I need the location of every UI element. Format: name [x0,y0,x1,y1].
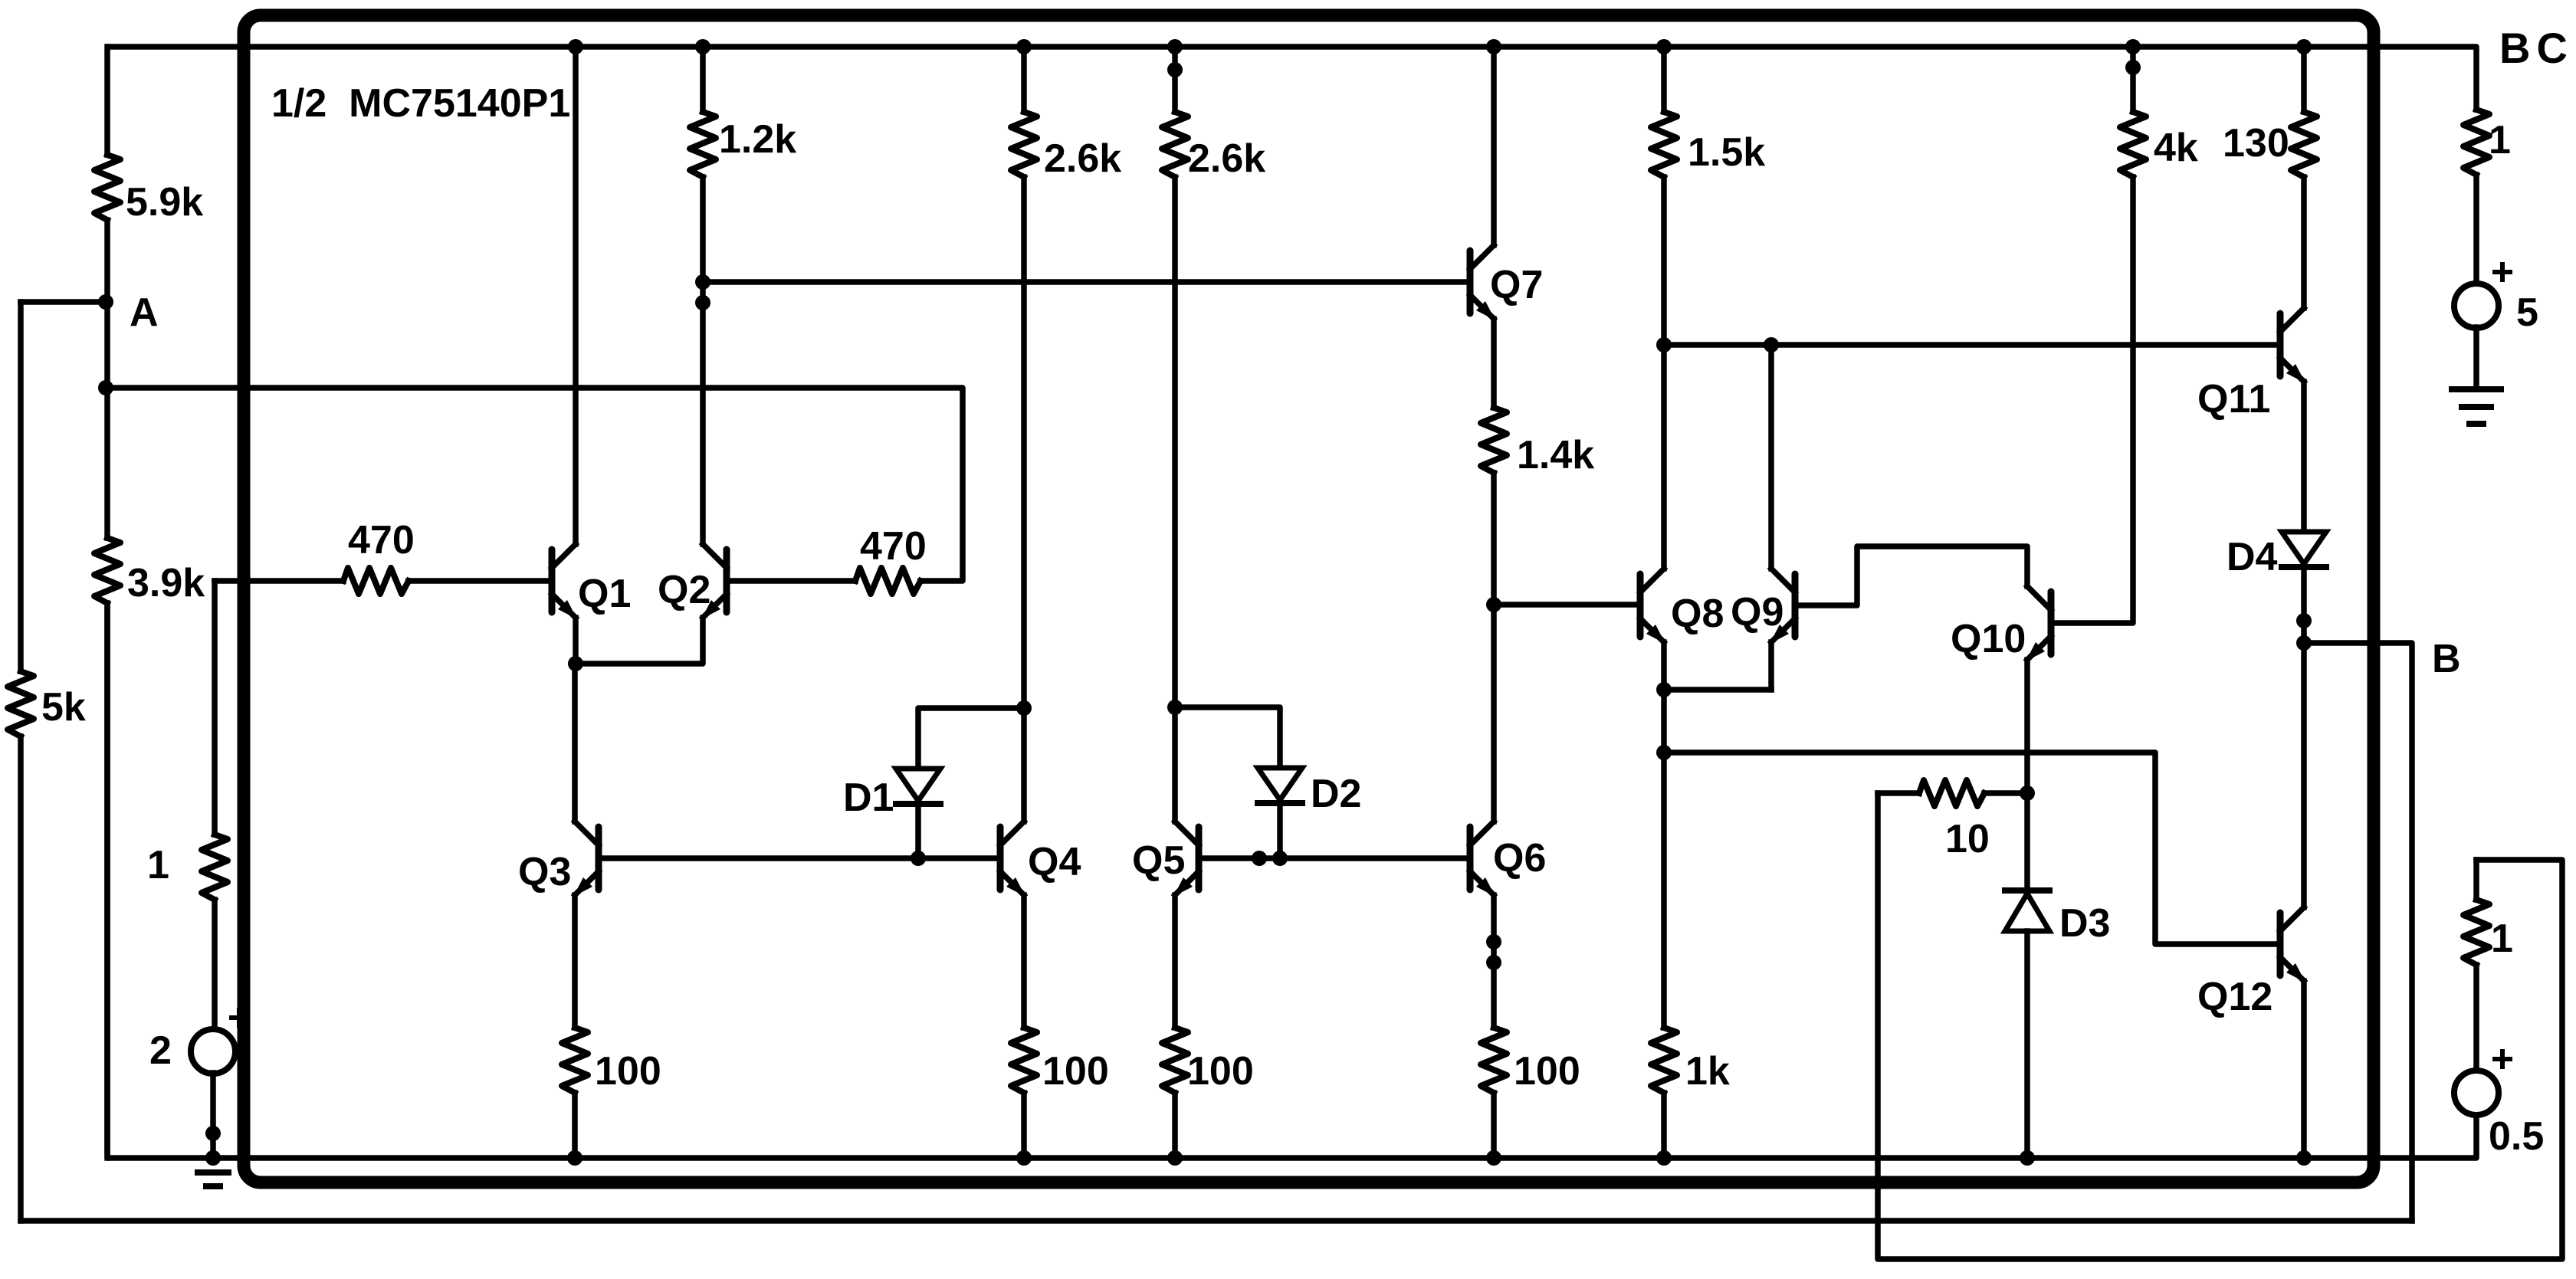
label Q6 [1493,836,1546,881]
wire Q9 emitter [1768,642,1774,690]
source 5 [2454,264,2510,328]
wire Q3 emitter [572,895,578,1028]
resistor 1 bottom right [2463,860,2489,1071]
label Q12 [2197,975,2272,1019]
junction Q8 emitter [1656,682,1672,697]
wire Q11 emitter [2301,382,2307,532]
svg-text:Q11: Q11 [2197,377,2270,421]
node A [98,290,159,335]
junction 1k ground [1656,1150,1672,1166]
wire Q5 emitter [1172,895,1178,1028]
wire D4 bottom [2301,567,2307,643]
junction D2 base line [1252,851,1288,866]
svg-text:Q8: Q8 [1671,592,1724,636]
resistor 1 input [202,581,228,1030]
svg-text:100: 100 [595,1049,661,1094]
svg-text:Q10: Q10 [1951,617,2026,661]
svg-text:Q3: Q3 [518,850,571,894]
wire Q3-Q4 base line [601,855,997,861]
junction Q12 ground [2296,1150,2312,1166]
svg-text:D2: D2 [1311,772,1361,816]
svg-text:Q5: Q5 [1132,838,1185,883]
resistor 1.2k [690,47,716,544]
label Q5 [1132,838,1185,883]
svg-text:Q6: Q6 [1493,836,1546,881]
svg-text:5: 5 [2516,290,2538,335]
junction Q3 ground [567,1150,582,1166]
wire D1 bottom [915,804,921,858]
resistor 100 Q4 [1011,1028,1037,1158]
svg-text:2: 2 [149,1028,172,1073]
label 0.5 [2489,1114,2544,1159]
label 100 Q6 [1514,1049,1580,1094]
wire Q12 base feed [1664,753,2277,944]
svg-text:10: 10 [1945,817,1990,861]
label Q4 [1028,840,1081,884]
resistor 100 Q3 [562,1028,588,1158]
transistor Q1 [552,544,577,619]
junction Q7 rail [1486,39,1501,54]
transistor Q6 [1470,822,1495,897]
wire bottom ground rail [107,605,2476,1158]
wire Q10 emitter [2024,660,2030,793]
svg-text:0.5: 0.5 [2489,1114,2544,1159]
resistor 5k [8,671,34,1221]
wire Q5-Q6 base line [1200,855,1465,861]
wire Q3 collector [572,664,578,822]
wire 4k top lead [2130,47,2136,112]
wire left outer column [18,302,24,671]
wire A to left column [21,299,106,305]
label 130 [2223,121,2289,166]
label 1k [1685,1049,1730,1094]
wire Q6 collector [1491,605,1497,822]
junction D2 top [1167,700,1183,715]
wire Q8 collector [1661,345,1667,569]
label 1 input resistor [147,843,169,887]
wire top supply rail [108,47,2476,110]
svg-text:1: 1 [147,843,169,887]
resistor 3.9k [94,538,120,1158]
label D2 [1311,772,1361,816]
svg-text:3.9k: 3.9k [127,561,205,605]
svg-text:130: 130 [2223,121,2289,166]
resistor 100 Q6 [1481,1028,1507,1158]
junction Q6 ground [1486,1150,1501,1166]
junction Q1 collector rail [568,39,583,54]
transistor Q3 [573,822,599,897]
svg-text:Q12: Q12 [2197,975,2272,1019]
wire Q8 emitter [1661,642,1667,690]
wire Q7 base line [703,279,1465,285]
wire Q10 base [2054,177,2133,623]
svg-text:4k: 4k [2154,126,2198,170]
svg-text:1: 1 [2491,917,2513,961]
label 1 bottom right [2491,917,2513,961]
transistor Q2 [701,544,727,619]
svg-text:100: 100 [1042,1049,1109,1094]
label D3 [2059,901,2110,946]
junction node B inner [2296,613,2312,651]
wire source 5 to ground [2473,327,2479,389]
junction 2.6k2 rail [1167,39,1183,77]
label 470 left [348,518,415,562]
wire Q9 base staircase [1798,546,2027,605]
resistor 1k [1651,753,1677,1158]
label 100 Q3 [595,1049,661,1094]
label 2.6k second [1188,136,1265,181]
label 2.6k first [1044,136,1121,181]
wire Q6 emitter [1491,895,1497,1028]
label Q7 [1490,263,1543,307]
wire input line to Q2 side [106,388,963,581]
label 100 Q4 [1042,1049,1109,1094]
transistor Q7 [1470,245,1495,320]
label Q10 [1951,617,2026,661]
junction 130 rail [2296,39,2312,54]
source 2 [191,1010,247,1074]
transistor Q9 [1770,569,1795,644]
label D1 [843,776,894,820]
svg-text:2.6k: 2.6k [1188,136,1265,181]
label 100 Q5 [1187,1049,1254,1094]
wire Q5 collector [1172,707,1178,822]
resistor 1.5k [1651,47,1677,345]
wire Q11 base line [1664,342,2277,348]
label 1.4k [1517,433,1594,477]
junction bottom rail dots [205,1150,221,1166]
svg-text:BC: BC [2499,24,2574,72]
wire Q2 emitter link [576,618,703,664]
svg-text:Q2: Q2 [658,568,710,612]
junction source 2 lower [205,1126,221,1166]
junction 1.5k bottom [1656,337,1672,353]
svg-text:Q1: Q1 [578,572,631,616]
wire Q8 node down [1661,690,1667,753]
junction D1 top [1016,700,1032,716]
label BC [2499,24,2574,72]
junction 1.2k rail [695,39,710,54]
label Q9 [1731,590,1784,635]
svg-text:Q7: Q7 [1490,263,1543,307]
wire Q8-Q9 emitter link [1664,687,1771,693]
label Q2 [658,568,710,612]
diode D3 [2005,793,2049,1158]
junction Q4 ground [1016,1150,1032,1166]
IC boundary box 1/2 MC75140P1 [244,15,2374,1182]
wire Q1 collector [573,47,579,544]
label Q1 [578,572,631,616]
svg-text:5.9k: 5.9k [126,180,203,225]
source 0.5 [2454,1051,2510,1115]
wire source 2 to ground [210,1073,216,1158]
svg-text:D4: D4 [2227,535,2278,579]
junction D1 base line [911,851,926,866]
transistor Q10 [2026,586,2051,661]
transistor Q11 [2280,308,2305,383]
junction Q9 collector [1764,337,1779,353]
resistor 470 right [730,568,920,594]
svg-text:D3: D3 [2059,901,2110,946]
svg-text:1.2k: 1.2k [719,117,796,162]
wire Q9 collector [1768,345,1774,569]
svg-text:100: 100 [1187,1049,1254,1094]
wire Q7 collector [1491,47,1497,245]
label D4 [2227,535,2278,579]
svg-text:B: B [2432,637,2461,681]
IC label [271,81,570,126]
svg-text:100: 100 [1514,1049,1580,1094]
junction 1.4k bottom [1486,597,1501,612]
label Q11 [2197,377,2270,421]
junction on A column [98,380,113,395]
junction 1.2k bottom [695,274,710,310]
label 2 [149,1028,172,1073]
transistor Q8 [1640,569,1665,644]
label B [2432,637,2461,681]
svg-text:470: 470 [860,524,927,569]
junction Q1Q2 emitters [568,656,583,671]
label Q3 [518,850,571,894]
label 1.2k [719,117,796,162]
svg-text:1k: 1k [1685,1049,1730,1094]
wire node B out [2304,643,2412,1221]
junction Q12 base feed [1656,745,1672,760]
resistor 1.4k [1481,408,1507,605]
wire Q7 emitter [1491,319,1497,408]
wire A-column mid [104,302,110,538]
resistor 130 [2291,47,2317,308]
svg-text:470: 470 [348,518,415,562]
junction 1.5k rail [1656,39,1672,54]
junction 4k rail [2125,39,2141,75]
resistor 2.6k first [1011,47,1037,708]
transistor Q12 [2280,907,2305,982]
label Q8 [1671,592,1724,636]
label 3.9k [127,561,205,605]
wire Q1 emitter to node [573,618,579,664]
label 5k [41,685,86,730]
resistor 1 top right [2463,110,2489,284]
svg-text:D1: D1 [843,776,894,820]
diode D2 [1258,768,1302,803]
svg-text:1.5k: 1.5k [1688,130,1765,175]
wire D2 bottom [1277,803,1283,858]
label 4k [2154,126,2198,170]
transistor Q5 [1173,822,1199,897]
ground left [198,1172,228,1186]
transistor Q4 [1000,822,1025,897]
resistor 4k [2120,112,2146,177]
label 1 top right [2489,118,2511,162]
label 1.5k [1688,130,1765,175]
label 470 right [860,524,927,569]
svg-text:1: 1 [2489,118,2511,162]
ground source 5 [2452,389,2501,424]
junction Q6 emitter pair [1486,934,1501,970]
resistor 470 left [215,568,550,594]
wire D2 top link [1175,707,1280,768]
resistor 2.6k second [1162,47,1188,707]
wire Q12 emitter [2301,981,2307,1158]
resistor 10 [1878,780,2027,806]
resistor 100 Q5 [1162,1028,1188,1158]
label 10 [1945,817,1990,861]
diode D4 [2282,532,2326,567]
wire Q12 collector [2301,643,2307,907]
diode D1 [896,769,940,804]
wire bottom external B line [21,1218,2412,1224]
svg-text:2.6k: 2.6k [1044,136,1121,181]
resistor 5.9k [94,47,120,302]
wire Q8 base line [1494,602,1638,608]
junction D3 ground [2020,1150,2035,1166]
junction Q5 ground [1167,1150,1183,1166]
wire Q4 collector [1021,708,1027,822]
label 5 [2516,290,2538,335]
svg-text:1/2 MC75140P1: 1/2 MC75140P1 [271,81,570,126]
svg-text:1.4k: 1.4k [1517,433,1594,477]
wire Q4 emitter [1021,895,1027,1028]
junction 2.6k1 rail [1016,39,1032,54]
junction 10 ohm node [2020,785,2035,801]
svg-text:5k: 5k [41,685,86,730]
wire D1 top link [918,708,1024,769]
wire external feedback loop [1878,793,2562,1259]
svg-text:Q9: Q9 [1731,590,1784,635]
svg-text:A: A [130,290,159,335]
label 5.9k [126,180,203,225]
svg-text:Q4: Q4 [1028,840,1081,884]
